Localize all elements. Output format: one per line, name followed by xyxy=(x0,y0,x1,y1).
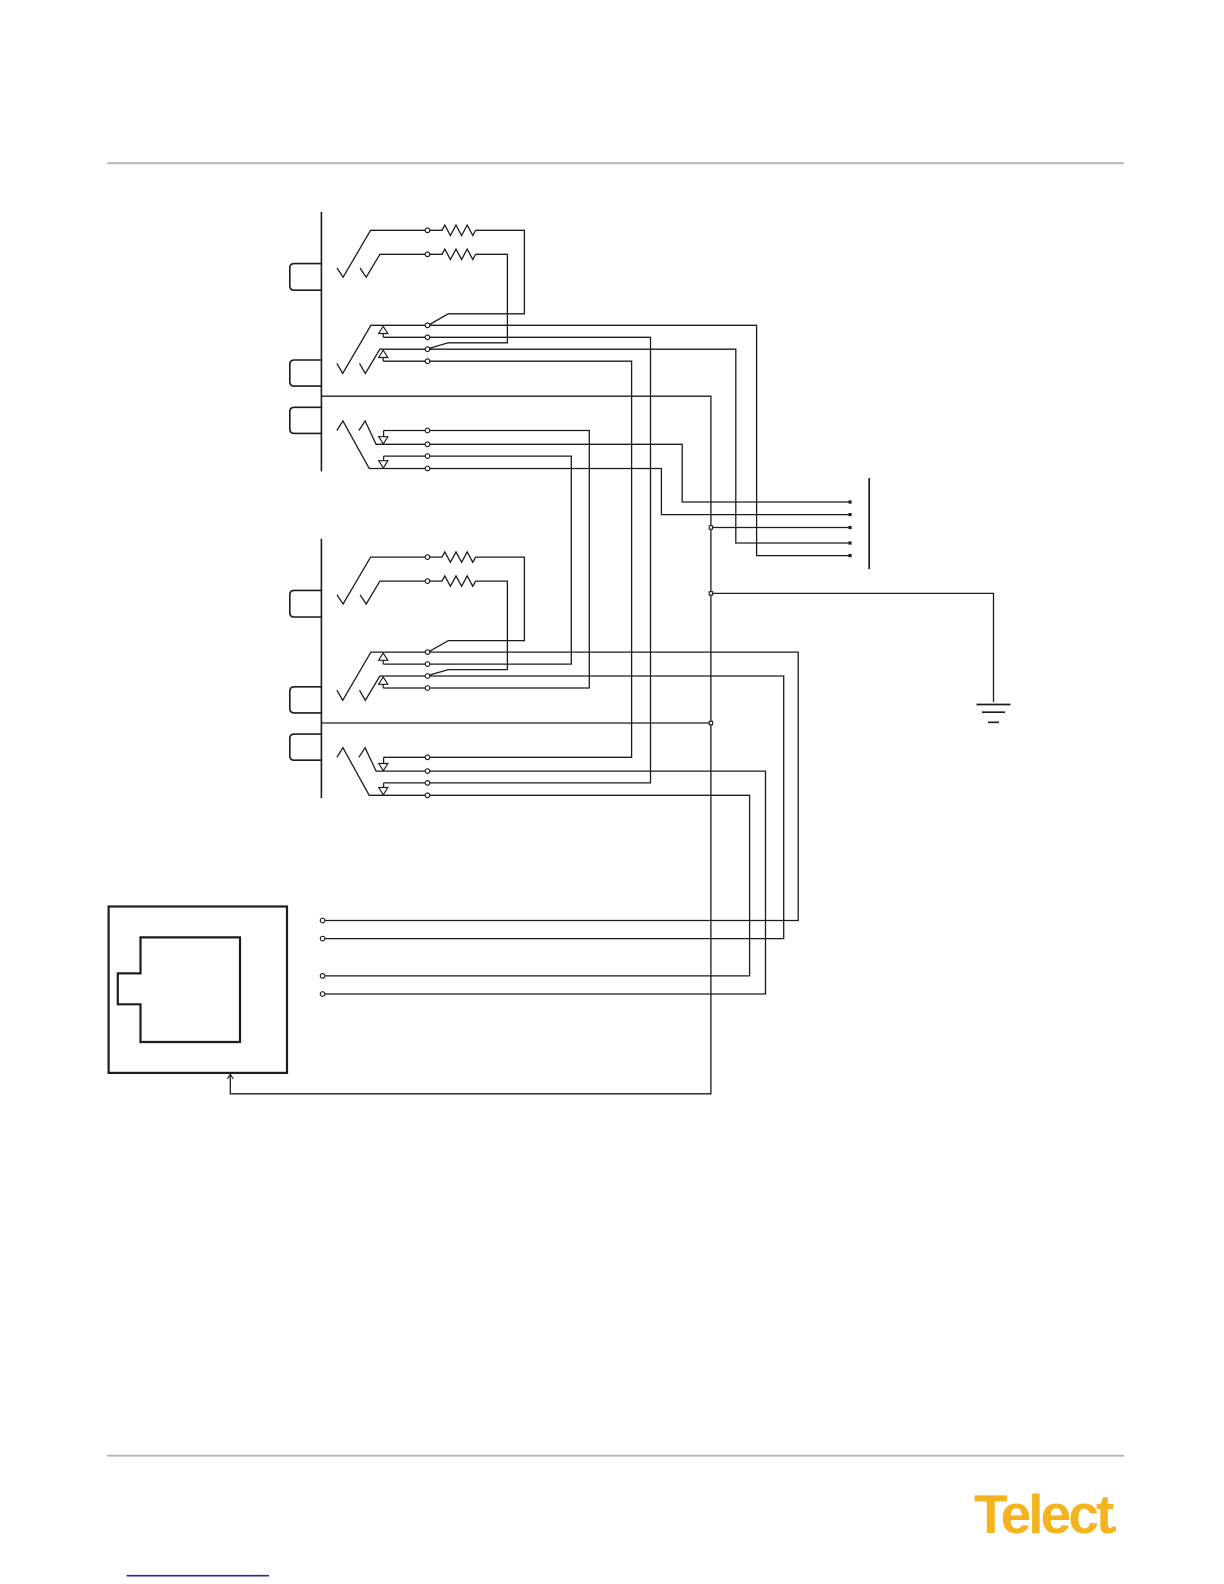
IN jack J23 ring spring xyxy=(337,748,425,796)
wire OUT1-T break to IN2 break (normal-through) xyxy=(383,337,650,783)
wire IN1 break to OUT2 break (normal-through) xyxy=(383,431,589,689)
OUT jack J22 tip spring xyxy=(337,652,425,700)
wire OUT1-T spring to P1 pin xyxy=(430,325,849,555)
MON jack J21 ring spring xyxy=(360,581,425,604)
terminal IN1-T xyxy=(425,442,430,447)
OUT1 tip break contact (triangle) xyxy=(379,326,388,333)
P1 pin 5 terminal xyxy=(848,554,851,557)
stub IN1 ring break xyxy=(383,456,385,461)
wire MON1-T resistor to OUT1 break contact xyxy=(430,230,525,324)
wire sleeve bus to ground xyxy=(711,593,994,702)
MON jack J21 tip spring xyxy=(337,557,425,604)
terminal RJ45 pin 4 xyxy=(320,992,325,997)
ground symbol xyxy=(977,705,1011,723)
resistor R21 xyxy=(430,552,476,562)
horizontal rule (header) xyxy=(107,162,1124,164)
stub OUT2 tip break xyxy=(382,660,384,664)
MON jack J11 ring spring xyxy=(360,254,425,277)
jack J21 (MON) bushing xyxy=(290,590,322,617)
jack J12 (OUT) bushing xyxy=(290,360,322,386)
OUT jack J12 tip spring xyxy=(337,325,425,373)
connector P1 body xyxy=(868,478,870,569)
jack J22 (OUT) bushing xyxy=(290,687,322,713)
terminal OUT1 tip normal xyxy=(425,335,430,340)
terminal RJ45 pin 2 xyxy=(320,936,325,941)
terminal IN1-R xyxy=(425,466,430,471)
P1 pin 1 terminal xyxy=(848,500,851,503)
jack module 2 mounting panel xyxy=(320,539,322,798)
P1 pin 4 terminal xyxy=(848,541,851,544)
terminal RJ45 pin 1 xyxy=(320,918,325,923)
terminal MON2-T xyxy=(425,555,430,560)
RJ45 jack J5 plug opening xyxy=(118,937,240,1042)
terminal IN1 ring normal xyxy=(425,454,430,459)
terminal OUT2 tip normal xyxy=(425,662,430,667)
OUT2 tip break contact (triangle) xyxy=(379,653,388,660)
IN1 tip break contact (triangle) xyxy=(379,437,388,444)
resistor R22 xyxy=(430,576,476,586)
terminal IN2 tip normal xyxy=(425,755,430,760)
terminal OUT2-R xyxy=(425,674,430,679)
terminal OUT2 ring normal xyxy=(425,686,430,691)
sleeve bus: panel divider 1 to RJ45 shield xyxy=(230,396,711,1094)
wire IN1-R spring to P1 pin xyxy=(430,469,849,515)
terminal OUT2-T xyxy=(425,650,430,655)
terminal IN2-T xyxy=(425,769,430,774)
OUT jack J22 ring spring xyxy=(360,676,426,700)
wire IN2-R spring to RJ45 pin xyxy=(325,795,750,976)
wire MON2-T resistor to OUT2 break contact xyxy=(430,557,525,651)
junction: sleeve at P1 stub xyxy=(709,526,712,529)
wire MON2-R resistor to OUT2 break contact xyxy=(430,581,508,675)
stub IN2 ring break xyxy=(383,783,385,788)
jack J23 (IN) bushing xyxy=(290,734,322,760)
IN jack J13 tip spring xyxy=(359,421,425,444)
jack J11 (MON) bushing xyxy=(290,264,322,291)
wire OUT1-R break to IN2 break (normal-through) xyxy=(383,361,631,757)
terminal IN2-R xyxy=(425,793,430,798)
terminal MON2-R xyxy=(425,579,430,584)
terminal IN1 tip normal xyxy=(425,428,430,433)
MON jack J11 tip spring xyxy=(337,230,425,277)
Telect logo trademark dot xyxy=(1111,1527,1116,1532)
stub OUT2 ring break xyxy=(382,684,384,688)
terminal OUT1 ring normal xyxy=(425,359,430,364)
horizontal rule (footer) xyxy=(107,1455,1124,1457)
OUT1 ring break contact (triangle) xyxy=(379,350,388,357)
IN1 ring break contact (triangle) xyxy=(379,461,388,468)
junction: sleeve at ground branch xyxy=(709,592,712,595)
IN2 ring break contact (triangle) xyxy=(379,788,388,795)
IN jack J13 ring spring xyxy=(337,421,425,469)
wire MON1-R resistor to OUT1 break contact xyxy=(430,254,508,348)
stub IN1 tip break xyxy=(383,431,385,437)
RJ45 shield pin arrow xyxy=(227,1074,233,1079)
terminal OUT1-R xyxy=(425,347,430,352)
svg-text:Telect: Telect xyxy=(974,1483,1114,1545)
terminal MON1-R xyxy=(425,252,430,257)
panel divider 2 (sleeve) xyxy=(321,722,711,724)
wire sleeve bus to P1 pin xyxy=(711,527,849,529)
stub OUT1 tip break xyxy=(382,334,384,338)
P1 pin 2 terminal xyxy=(848,513,851,516)
terminal RJ45 pin 3 xyxy=(320,974,325,979)
hyperlink underline xyxy=(127,1575,269,1577)
stub IN2 tip break xyxy=(383,757,385,763)
P1 pin 3 terminal xyxy=(848,526,851,529)
wire OUT1-R spring to P1 pin xyxy=(430,349,849,543)
wire OUT2-T spring to RJ45 pin xyxy=(325,652,798,920)
resistor R11 xyxy=(430,225,476,235)
terminal IN2 ring normal xyxy=(425,781,430,786)
terminal OUT1-T xyxy=(425,323,430,328)
OUT2 ring break contact (triangle) xyxy=(379,677,388,684)
terminal MON1-T xyxy=(425,228,430,233)
IN jack J23 tip spring xyxy=(359,748,425,771)
OUT jack J12 ring spring xyxy=(360,349,426,373)
resistor R12 xyxy=(430,249,476,259)
wire IN1-T spring to P1 pin xyxy=(430,444,849,502)
RJ45 jack J5 body xyxy=(109,907,287,1073)
jack module 1 mounting panel xyxy=(320,212,322,471)
wire IN2-T spring to RJ45 pin xyxy=(325,771,766,994)
junction: sleeve at divider 2 xyxy=(709,721,712,724)
IN2 tip break contact (triangle) xyxy=(379,764,388,771)
jack J13 (IN) bushing xyxy=(290,407,322,433)
wire OUT2-R spring to RJ45 pin xyxy=(325,676,784,939)
stub OUT1 ring break xyxy=(382,358,384,362)
wire IN1 break to OUT2 break (normal-through) xyxy=(383,456,571,664)
